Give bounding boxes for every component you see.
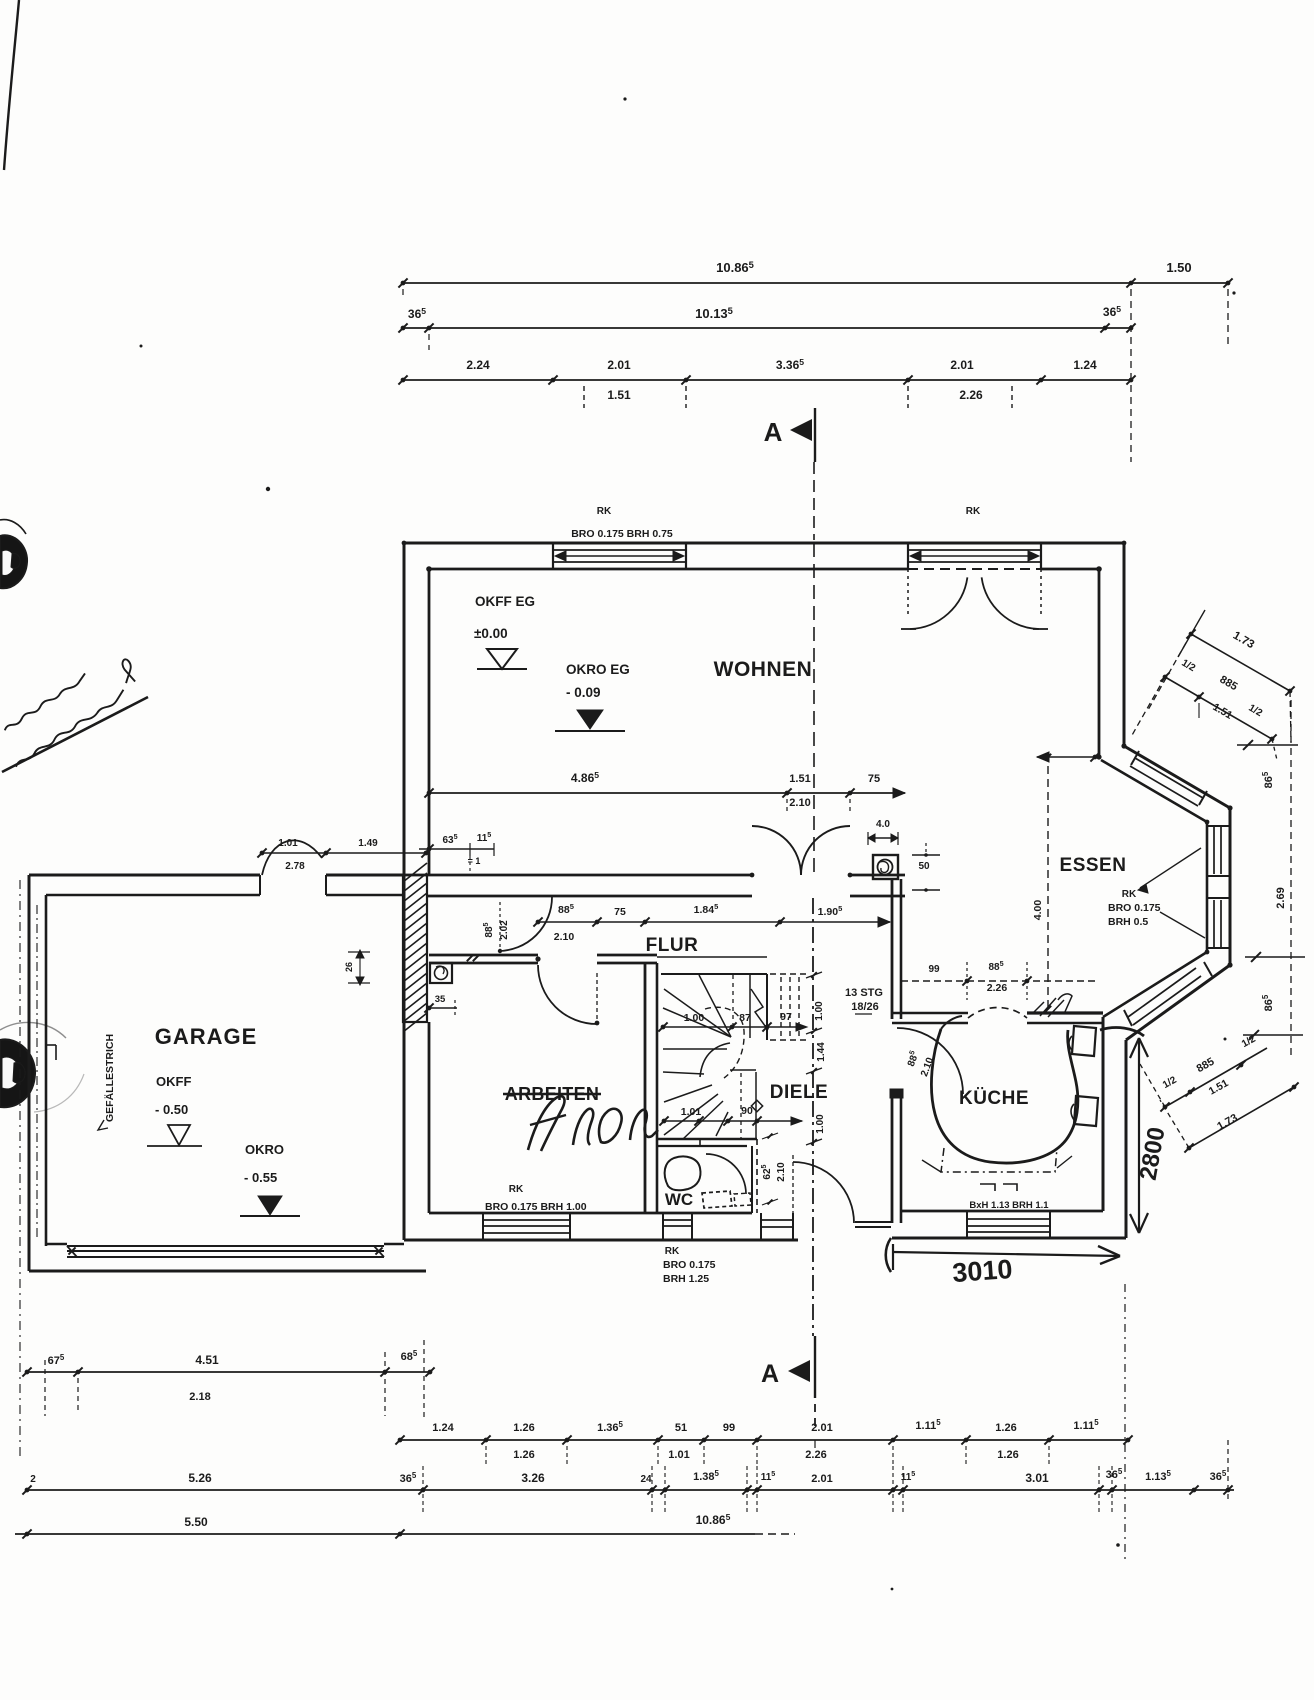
svg-text:GARAGE: GARAGE — [155, 1024, 258, 1049]
bay E wall inner — [1206, 822, 1209, 952]
garage level filled triangle — [258, 1196, 282, 1215]
svg-text:35: 35 — [435, 994, 446, 1005]
svg-text:2.10: 2.10 — [789, 797, 810, 809]
arbeiten south window — [482, 1213, 484, 1240]
handwriting bottom-left — [2, 697, 148, 772]
wall garage left outer — [28, 875, 31, 1271]
dim 50 at diele top — [912, 854, 940, 856]
svg-text:1.01: 1.01 — [681, 1106, 702, 1118]
bay NE dim 1.73 — [1191, 634, 1290, 691]
svg-text:365: 365 — [1210, 1469, 1227, 1483]
svg-text:OKFF: OKFF — [156, 1074, 191, 1089]
svg-text:1.26: 1.26 — [997, 1449, 1018, 1461]
dim extension dashes top — [402, 289, 404, 300]
dim 63.5 11.5 labels — [419, 848, 494, 850]
french door wohnen top — [907, 543, 909, 569]
bay SE wall outer — [1126, 965, 1230, 1040]
wall garage bottom outer — [29, 1270, 426, 1273]
dim row T1 line 10.86/1.50 — [403, 282, 1131, 284]
svg-text:625: 625 — [759, 1164, 773, 1179]
svg-text:1.365: 1.365 — [597, 1420, 623, 1434]
okro eg filled triangle — [577, 710, 603, 729]
svg-text:885: 885 — [1218, 674, 1240, 694]
bay NE wall inner — [1101, 760, 1207, 822]
wall wc top — [657, 1138, 757, 1141]
dim row B1 — [27, 1371, 430, 1373]
svg-text:1/2: 1/2 — [1246, 703, 1264, 720]
svg-text:BRH 1.25: BRH 1.25 — [663, 1273, 709, 1285]
svg-text:885: 885 — [481, 922, 495, 937]
left extension line — [19, 880, 21, 1460]
svg-text:BRO 0.175: BRO 0.175 — [1108, 902, 1161, 914]
svg-text:1.135: 1.135 — [1145, 1469, 1171, 1483]
ink blob / punch hole upper-left — [0, 535, 27, 588]
okff eg open triangle — [487, 649, 517, 669]
svg-text:1.115: 1.115 — [915, 1418, 941, 1432]
svg-text:DIELE: DIELE — [770, 1082, 828, 1103]
garage side door arc — [262, 840, 322, 875]
svg-text:50: 50 — [918, 861, 930, 872]
svg-text:ESSEN: ESSEN — [1060, 855, 1127, 876]
svg-text:365: 365 — [408, 306, 426, 321]
svg-text:24: 24 — [640, 1474, 652, 1485]
svg-text:1.50: 1.50 — [1166, 260, 1191, 275]
bay E wall outer — [1229, 808, 1232, 965]
svg-text:RK: RK — [509, 1184, 524, 1195]
kitchen pass dashed arc — [968, 1008, 1027, 1019]
svg-text:26: 26 — [344, 962, 354, 972]
bay SE wall inner — [1103, 952, 1207, 1017]
dim row B4 — [15, 1533, 755, 1535]
garage left step — [46, 1044, 56, 1046]
svg-text:2.18: 2.18 — [189, 1391, 210, 1403]
wall wc right — [751, 1146, 753, 1213]
svg-text:1.00: 1.00 — [684, 1012, 705, 1024]
kitchen appliance right 2 — [1074, 1096, 1098, 1126]
bay NE window — [1135, 758, 1203, 798]
staircase winder treads — [657, 956, 767, 958]
svg-text:1.115: 1.115 — [1073, 1418, 1099, 1432]
dim 4.00 essen vertical — [1047, 753, 1049, 1013]
dim row T3 segments — [403, 379, 1131, 381]
bay SE dim 885 1.51 1.73 — [1165, 1048, 1267, 1107]
svg-text:KÜCHE: KÜCHE — [959, 1088, 1029, 1109]
dim wohnen interior — [429, 792, 905, 794]
svg-text:2.01: 2.01 — [950, 358, 974, 372]
svg-text:BRO 0.175 BRH 1.00: BRO 0.175 BRH 1.00 — [485, 1201, 587, 1213]
entry door arc — [793, 1162, 854, 1223]
svg-text:99: 99 — [928, 964, 940, 975]
svg-text:1.26: 1.26 — [513, 1449, 534, 1461]
svg-text:1/2: 1/2 — [1179, 658, 1197, 675]
svg-text:GEFÄLLESTRICH: GEFÄLLESTRICH — [103, 1034, 116, 1122]
garage left wall dash centerline — [36, 905, 38, 1240]
handwritten 3010 dim — [893, 1252, 1120, 1256]
wall wohnen top outer — [404, 542, 1124, 545]
svg-text:- 0.50: - 0.50 — [155, 1102, 188, 1117]
svg-text:BRH 0.5: BRH 0.5 — [1108, 916, 1148, 928]
svg-text:51: 51 — [675, 1422, 687, 1434]
svg-text:OKFF EG: OKFF EG — [475, 594, 535, 609]
wall garage top outer — [29, 874, 260, 877]
dim row T2 line 36.5/10.13.5 — [403, 327, 1131, 329]
svg-text:2.26: 2.26 — [959, 388, 983, 402]
svg-text:1.51: 1.51 — [607, 388, 631, 402]
handwritten flur — [528, 1096, 564, 1151]
door jamb marks flur — [467, 955, 473, 961]
svg-text:10.865: 10.865 — [696, 1512, 731, 1527]
bay SE window — [1128, 968, 1196, 1017]
wall left outer — [403, 543, 406, 1240]
svg-text:865: 865 — [1261, 994, 1275, 1011]
svg-text:A: A — [761, 1360, 779, 1388]
svg-text:885: 885 — [1195, 1056, 1217, 1075]
svg-text:3.365: 3.365 — [776, 357, 804, 372]
section line A-A vertical — [813, 462, 815, 540]
bay NE wall outer — [1124, 746, 1230, 808]
door arc flur lower — [538, 965, 597, 1024]
svg-text:2.69: 2.69 — [1275, 887, 1287, 908]
svg-text:5.50: 5.50 — [184, 1515, 208, 1529]
svg-text:13 STG: 13 STG — [845, 987, 883, 999]
wall diele-essen — [891, 879, 894, 1019]
wall south inner — [429, 1212, 752, 1215]
essen note leaders — [1140, 848, 1201, 888]
stair dim lower — [664, 1120, 802, 1122]
svg-text:1.00: 1.00 — [815, 1114, 826, 1134]
staircase upper flight dashed — [770, 973, 806, 975]
svg-text:885: 885 — [903, 1049, 921, 1068]
stair dim upper — [663, 1026, 800, 1028]
bay corner dots — [1121, 743, 1126, 748]
ink blob / punch hole lower-left — [0, 1039, 35, 1107]
svg-text:685: 685 — [401, 1349, 418, 1363]
svg-text:675: 675 — [48, 1353, 65, 1367]
wall kitchen right — [1102, 1017, 1105, 1211]
svg-text:- 0.55: - 0.55 — [244, 1170, 277, 1185]
entry threshold — [855, 1221, 891, 1223]
garage level open triangle — [168, 1125, 190, 1145]
kitchen south window — [966, 1211, 968, 1238]
svg-text:1.73: 1.73 — [1215, 1112, 1240, 1133]
right dim chain — [1290, 700, 1292, 1056]
svg-text:2.10: 2.10 — [554, 931, 575, 943]
svg-text:4.0: 4.0 — [876, 819, 890, 830]
wall kitchen bottom outer — [892, 1237, 1126, 1240]
dim 35 below downpipe — [427, 1007, 457, 1009]
svg-text:1.00: 1.00 — [814, 1001, 825, 1021]
svg-text:885: 885 — [558, 902, 574, 916]
wc sink — [702, 1191, 732, 1208]
column with pipe at essen corner — [873, 855, 898, 879]
svg-text:75: 75 — [614, 906, 626, 918]
svg-text:2.10: 2.10 — [776, 1162, 787, 1182]
diele south window — [760, 1213, 762, 1240]
svg-text:5.26: 5.26 — [188, 1471, 212, 1485]
door arc flur upper — [498, 897, 552, 951]
dim garage top — [262, 852, 426, 854]
wc south window — [662, 1213, 664, 1240]
bay NE dim 885 1.51 — [1165, 677, 1272, 739]
svg-text:1.385: 1.385 — [693, 1469, 719, 1483]
dim extension small wohnen — [786, 799, 788, 812]
kitchen door arc — [897, 1028, 963, 1094]
svg-text:18/26: 18/26 — [851, 1001, 879, 1013]
stray specks — [140, 345, 143, 348]
wall south outer — [404, 1239, 798, 1242]
svg-text:365: 365 — [400, 1471, 417, 1485]
svg-text:10.135: 10.135 — [695, 306, 733, 321]
double door flur-wohnen — [752, 826, 801, 875]
wc door arc — [706, 1154, 746, 1194]
wall flur top line1 — [404, 874, 752, 877]
svg-text:3.26: 3.26 — [521, 1471, 545, 1485]
wall garage left inner — [45, 895, 48, 1246]
kitchen scribbles at essen opening — [1032, 998, 1064, 1017]
svg-text:1.26: 1.26 — [995, 1422, 1016, 1434]
svg-text:A: A — [764, 417, 783, 447]
svg-text:1.01: 1.01 — [668, 1449, 689, 1461]
svg-text:RK: RK — [597, 506, 612, 517]
dim row diele-kueche 99 88.5 — [901, 980, 1099, 982]
svg-text:3.01: 3.01 — [1025, 1471, 1049, 1485]
svg-text:1/2: 1/2 — [1161, 1074, 1179, 1091]
svg-text:2.01: 2.01 — [811, 1422, 832, 1434]
svg-text:1.01: 1.01 — [278, 838, 298, 849]
svg-text:4.00: 4.00 — [1032, 900, 1044, 921]
svg-text:2.01: 2.01 — [811, 1473, 832, 1485]
wall wohnen right outer — [1123, 543, 1126, 746]
svg-text:2.26: 2.26 — [987, 982, 1008, 994]
downpipe square left — [430, 963, 452, 983]
svg-text:97: 97 — [780, 1011, 792, 1023]
dim row B2 — [400, 1439, 1128, 1441]
svg-text:635: 635 — [442, 832, 457, 846]
wall wohnen top inner — [429, 568, 908, 571]
svg-text:87: 87 — [739, 1012, 751, 1024]
wall kitchen bottom inner — [901, 1210, 1103, 1213]
dim essen top — [1037, 756, 1099, 758]
kitchen appliance right 1 — [1072, 1026, 1096, 1056]
svg-text:OKRO EG: OKRO EG — [566, 662, 630, 677]
window W1 wohnen top — [552, 543, 554, 569]
svg-text:±0.00: ±0.00 — [474, 626, 508, 641]
svg-text:365: 365 — [1106, 1467, 1123, 1481]
svg-text:BRO 0.175 BRH 0.75: BRO 0.175 BRH 0.75 — [571, 528, 673, 540]
wall left inner lower — [428, 1022, 431, 1213]
french door swing arcs — [907, 569, 909, 616]
svg-text:885: 885 — [988, 959, 1003, 973]
svg-text:- 0.09: - 0.09 — [566, 685, 601, 700]
svg-text:2.78: 2.78 — [285, 861, 305, 872]
svg-text:2: 2 — [30, 1474, 36, 1485]
wall arbeiten top right — [597, 954, 657, 957]
svg-text:RK: RK — [1122, 889, 1137, 900]
svg-text:1.44: 1.44 — [816, 1042, 827, 1062]
svg-text:2.01: 2.01 — [607, 358, 631, 372]
wc toilet — [665, 1156, 701, 1190]
wall wohnen right inner — [1098, 569, 1101, 755]
handwritten 2800 dim — [1138, 1038, 1140, 1233]
svg-text:1/2: 1/2 — [1240, 1033, 1258, 1050]
kitchen counter dashdot — [941, 1148, 1057, 1172]
bay E windows — [1213, 826, 1215, 874]
wall arbeiten right — [644, 963, 647, 1213]
svg-text:99: 99 — [723, 1422, 735, 1434]
wall kitchen left lower — [891, 1094, 894, 1223]
wall flur top line2 — [426, 895, 752, 898]
hatched wall left corridor — [403, 875, 427, 1022]
kitchen top wall — [892, 1012, 968, 1015]
svg-text:2.24: 2.24 — [466, 358, 490, 372]
svg-text:75: 75 — [868, 773, 880, 785]
svg-text:4.865: 4.865 — [571, 770, 599, 785]
svg-text:RK: RK — [966, 506, 981, 517]
svg-text:1.905: 1.905 — [818, 904, 843, 918]
corner dots wohnen — [426, 566, 432, 572]
svg-text:865: 865 — [1261, 771, 1275, 788]
svg-text:1.73: 1.73 — [1231, 630, 1256, 652]
svg-text:1.51: 1.51 — [1211, 701, 1235, 722]
wall arbeiten top left — [429, 954, 538, 957]
svg-text:1.24: 1.24 — [432, 1422, 454, 1434]
wall left inner upper — [428, 569, 431, 875]
svg-text:2.02: 2.02 — [499, 920, 510, 940]
scanner pen stroke top-left — [4, 0, 19, 170]
svg-text:BxH 1.13 BRH 1.1: BxH 1.13 BRH 1.1 — [969, 1200, 1049, 1211]
svg-text:1.49: 1.49 — [358, 838, 378, 849]
wall garage top inner — [46, 894, 260, 897]
svg-text:BRO 0.175: BRO 0.175 — [663, 1259, 716, 1271]
bottom extension dashes — [1124, 1284, 1126, 1560]
svg-text:1.24: 1.24 — [1073, 358, 1097, 372]
svg-text:FLUR: FLUR — [646, 935, 699, 956]
svg-text:1.26: 1.26 — [513, 1422, 534, 1434]
svg-text:RK: RK — [665, 1246, 680, 1257]
svg-text:WC: WC — [665, 1190, 693, 1209]
svg-text:115: 115 — [761, 1469, 776, 1483]
kitchen counter freehand — [931, 1029, 1077, 1163]
svg-text:10.865: 10.865 — [716, 260, 754, 275]
svg-text:1.51: 1.51 — [789, 773, 810, 785]
svg-text:115: 115 — [477, 830, 492, 844]
svg-text:4.51: 4.51 — [195, 1353, 219, 1367]
svg-text:WOHNEN: WOHNEN — [714, 658, 813, 681]
door dim line flur — [538, 921, 890, 923]
dim row B3 — [27, 1489, 1234, 1491]
svg-text:3010: 3010 — [951, 1254, 1013, 1288]
svg-text:365: 365 — [1103, 304, 1121, 319]
svg-text:OKRO: OKRO — [245, 1142, 284, 1157]
svg-text:1.845: 1.845 — [694, 902, 719, 916]
svg-text:2.26: 2.26 — [805, 1449, 826, 1461]
garage door sill — [46, 1243, 67, 1246]
